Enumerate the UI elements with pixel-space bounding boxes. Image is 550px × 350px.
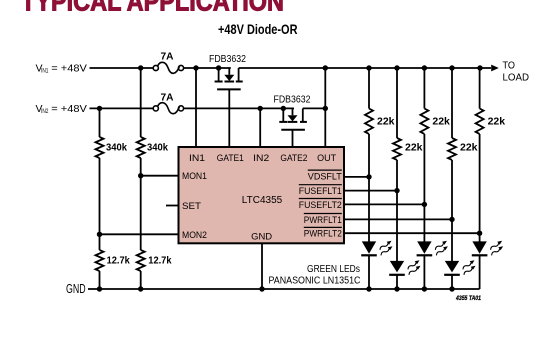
- pin GND: [251, 232, 272, 243]
- LED D2 emission arrows: [406, 259, 421, 276]
- resistor R2 340k (from VIN1): [137, 68, 169, 250]
- svg-text:FUSEFLT1: FUSEFLT1: [299, 186, 342, 197]
- svg-text:340k: 340k: [106, 143, 127, 154]
- wire PWRFLT1 to column 4: [344, 217, 455, 222]
- svg-text:IN2: IN2: [253, 153, 269, 164]
- svg-text:LTC4355: LTC4355: [242, 195, 283, 206]
- wire M2 drain to OUT vertical: [303, 106, 328, 111]
- svg-text:PANASONIC LN1351C: PANASONIC LN1351C: [269, 275, 361, 286]
- svg-text:FDB3632: FDB3632: [274, 95, 311, 106]
- svg-text:4355 TA01: 4355 TA01: [455, 295, 481, 302]
- resistor R5 22k (column 1): [365, 68, 395, 177]
- svg-text:340k: 340k: [147, 143, 168, 154]
- svg-text:22k: 22k: [432, 117, 450, 128]
- transistor M1 FDB3632: [209, 54, 246, 89]
- svg-text:IN1: IN1: [41, 68, 49, 75]
- svg-text:7A: 7A: [161, 51, 174, 62]
- transistor M2 FDB3632: [274, 95, 311, 130]
- svg-text:IN1: IN1: [189, 153, 205, 164]
- svg-text:22k: 22k: [377, 117, 395, 128]
- node VIN2 label: [36, 103, 87, 115]
- svg-text:22k: 22k: [460, 143, 478, 154]
- label 4355 TA01: [455, 295, 481, 302]
- op-amp U1 LTC4355 box: [179, 147, 345, 243]
- svg-text:7A: 7A: [161, 93, 174, 104]
- svg-text:LOAD: LOAD: [503, 72, 530, 83]
- resistor R3 12.7k: [96, 234, 131, 289]
- pin PWRFLT1: [304, 214, 342, 226]
- svg-text:OUT: OUT: [317, 153, 336, 164]
- wire IN1 sense drop: [195, 68, 197, 148]
- svg-text:+48V Diode-OR: +48V Diode-OR: [218, 22, 298, 37]
- LED D2 (column 2): [389, 191, 405, 289]
- LED D5 emission arrows: [489, 239, 504, 256]
- svg-text:MON1: MON1: [182, 171, 207, 182]
- svg-text:SET: SET: [182, 201, 201, 212]
- wire FUSEFLT2 to column 3: [344, 202, 427, 207]
- svg-text:GATE1: GATE1: [217, 153, 244, 164]
- resistor R1 340k (from VIN2): [96, 108, 128, 234]
- title +48V Diode-OR: [218, 22, 298, 37]
- LED D4 emission arrows: [461, 259, 476, 276]
- svg-text:= +48V: = +48V: [51, 62, 87, 74]
- LED D1 emission arrows: [378, 239, 393, 256]
- wire SET stub: [166, 205, 179, 207]
- pin MON2: [182, 230, 207, 241]
- svg-text:TO: TO: [503, 60, 516, 71]
- svg-text:MON2: MON2: [182, 230, 207, 241]
- resistor R7 22k (column 3): [420, 68, 450, 204]
- svg-text:PWRFLT2: PWRFLT2: [304, 229, 342, 240]
- pin IN2: [253, 153, 269, 164]
- fuse F1 7A: [153, 51, 183, 73]
- pin IN1: [189, 153, 205, 164]
- wire GATE2 lead: [292, 130, 294, 147]
- LED D3 emission arrows: [434, 239, 449, 256]
- wire MON2: [97, 232, 179, 237]
- resistor R4 12.7k: [137, 250, 172, 289]
- node GND label: [66, 282, 86, 296]
- pin FUSEFLT2: [299, 199, 342, 211]
- LED D1 (column 1): [361, 177, 377, 289]
- svg-text:GATE2: GATE2: [280, 153, 307, 164]
- wire IN2 sense drop: [259, 108, 261, 147]
- svg-text:12.7k: 12.7k: [148, 256, 172, 267]
- arrow TO LOAD: [491, 60, 529, 83]
- wire PWRFLT2 to column 5: [344, 231, 482, 236]
- LED D3 (column 3): [417, 204, 433, 289]
- resistor R6 22k (column 2): [393, 68, 423, 191]
- LED D4 (column 4): [444, 219, 460, 289]
- svg-text:GND: GND: [251, 232, 272, 243]
- wire GND pin drop: [259, 243, 264, 291]
- svg-text:22k: 22k: [405, 143, 423, 154]
- pin PWRFLT2: [304, 227, 342, 239]
- wire VDSFLT to column 1: [344, 174, 372, 179]
- wire VIN1 rail (fuse to M1): [184, 65, 231, 70]
- node VIN1 label: [36, 62, 87, 74]
- wire GATE1 lead: [228, 90, 230, 148]
- pin OUT: [317, 153, 336, 164]
- svg-text:GND: GND: [66, 282, 86, 296]
- pin VDSFLT: [308, 170, 342, 182]
- pin GATE2: [280, 153, 307, 164]
- svg-text:= +48V: = +48V: [51, 103, 87, 115]
- wire VIN2 rail left (to fuse F2): [90, 106, 154, 111]
- svg-text:FUSEFLT2: FUSEFLT2: [299, 200, 342, 211]
- svg-text:VDSFLT: VDSFLT: [308, 171, 342, 182]
- svg-text:PWRFLT1: PWRFLT1: [304, 215, 342, 226]
- header TYPICAL APPLICATION (cut off at top): [21, 0, 284, 16]
- svg-text:22k: 22k: [488, 117, 506, 128]
- svg-text:TYPICAL APPLICATION: TYPICAL APPLICATION: [21, 0, 284, 16]
- wire GND rail: [88, 286, 480, 291]
- pin SET: [182, 201, 201, 212]
- svg-text:12.7k: 12.7k: [107, 256, 131, 267]
- pin GATE1: [217, 153, 244, 164]
- wire OUT vertical: [324, 68, 326, 148]
- wire VIN2 rail (fuse to M2): [184, 106, 294, 111]
- wire MON1: [138, 173, 179, 178]
- fuse F2 7A: [153, 93, 183, 114]
- wire VIN1 rail left (to fuse F1): [90, 65, 154, 70]
- svg-text:FDB3632: FDB3632: [209, 54, 246, 65]
- LED D5 (column 5): [472, 233, 488, 289]
- resistor R8 22k (column 4): [448, 68, 478, 219]
- svg-text:GREEN LEDs: GREEN LEDs: [307, 264, 360, 275]
- label GREEN LEDs: [269, 264, 361, 286]
- svg-text:IN2: IN2: [41, 108, 49, 115]
- wire FUSEFLT1 to column 2: [344, 188, 400, 193]
- wire top rail (M1 drain to load arrow): [239, 65, 491, 70]
- pin MON1: [182, 171, 207, 182]
- resistor R9 22k (column 5): [476, 68, 506, 233]
- pin FUSEFLT1: [299, 185, 342, 197]
